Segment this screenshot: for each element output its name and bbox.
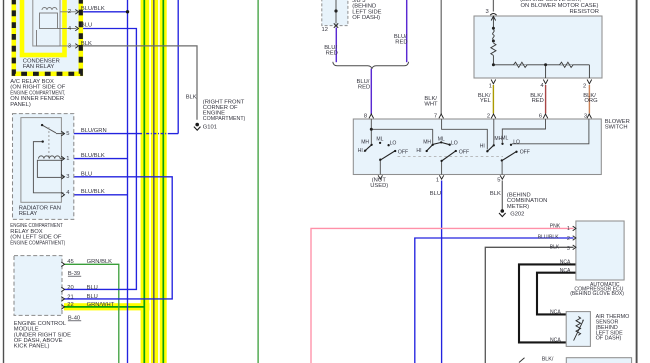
svg-text:SWITCH: SWITCH — [605, 125, 628, 131]
svg-text:ORG: ORG — [584, 98, 598, 104]
svg-text:PNK: PNK — [550, 224, 561, 230]
svg-text:RESISTOR: RESISTOR — [569, 9, 599, 15]
svg-text:RED: RED — [395, 39, 407, 45]
svg-text:1: 1 — [436, 177, 439, 183]
svg-text:YEL: YEL — [480, 98, 492, 104]
svg-text:5: 5 — [66, 131, 69, 137]
svg-text:BLK/: BLK/ — [542, 357, 554, 363]
svg-text:OFF: OFF — [459, 149, 469, 155]
svg-text:BLK: BLK — [81, 41, 92, 47]
svg-text:ML: ML — [438, 136, 445, 142]
svg-text:ENGINE COMPARTMENT): ENGINE COMPARTMENT) — [10, 240, 65, 246]
svg-text:(BEHIND GLOVE BOX): (BEHIND GLOVE BOX) — [570, 291, 624, 297]
svg-text:BLK: BLK — [550, 244, 560, 250]
svg-text:FAN RELAY: FAN RELAY — [23, 64, 55, 70]
svg-text:HI: HI — [416, 148, 421, 154]
svg-text:2: 2 — [567, 236, 570, 242]
svg-text:5: 5 — [497, 177, 500, 183]
svg-text:LO: LO — [451, 140, 458, 146]
svg-text:BLU: BLU — [430, 191, 441, 197]
svg-text:3: 3 — [66, 174, 69, 180]
svg-text:3: 3 — [584, 113, 587, 119]
svg-text:BLK: BLK — [490, 191, 501, 197]
svg-text:GRN/WHT: GRN/WHT — [87, 302, 115, 308]
svg-text:22: 22 — [67, 302, 73, 308]
svg-text:6: 6 — [539, 113, 542, 119]
svg-text:NCA: NCA — [560, 260, 571, 266]
svg-text:RED: RED — [532, 98, 544, 104]
svg-text:BLU: BLU — [81, 23, 92, 29]
svg-text:G202: G202 — [510, 211, 524, 217]
svg-text:MH: MH — [423, 139, 431, 145]
svg-text:OFF: OFF — [398, 149, 408, 155]
svg-text:21: 21 — [67, 294, 73, 300]
svg-text:WHT: WHT — [424, 101, 438, 107]
svg-text:NCA: NCA — [550, 310, 561, 316]
svg-text:USED): USED) — [370, 183, 388, 189]
svg-text:HI: HI — [480, 143, 485, 149]
svg-text:OFF: OFF — [520, 149, 530, 155]
svg-text:BLU: BLU — [81, 171, 92, 177]
svg-text:METER): METER) — [507, 204, 529, 210]
svg-text:7: 7 — [434, 113, 437, 119]
svg-text:1: 1 — [66, 156, 69, 162]
svg-text:1: 1 — [567, 226, 570, 232]
svg-text:3: 3 — [68, 43, 71, 49]
svg-text:RED: RED — [358, 84, 370, 90]
svg-text:3: 3 — [486, 9, 489, 15]
svg-text:HI: HI — [358, 148, 363, 154]
svg-text:ML: ML — [501, 136, 508, 142]
svg-text:BLU/BLK: BLU/BLK — [538, 235, 560, 241]
svg-text:GRN/BLK: GRN/BLK — [87, 259, 113, 265]
svg-text:2: 2 — [583, 84, 586, 90]
svg-text:KICK PANEL): KICK PANEL) — [14, 344, 50, 350]
svg-text:G101: G101 — [203, 124, 217, 130]
svg-text:OF DASH): OF DASH) — [352, 15, 380, 21]
svg-text:RELAY: RELAY — [19, 211, 38, 217]
svg-text:BLU/BLK: BLU/BLK — [81, 189, 105, 195]
svg-text:BLU: BLU — [87, 285, 98, 291]
svg-text:PANEL): PANEL) — [10, 102, 31, 108]
svg-text:COMPARTMENT): COMPARTMENT) — [203, 116, 246, 122]
svg-text:12: 12 — [322, 27, 328, 33]
svg-text:2: 2 — [487, 113, 490, 119]
svg-text:1: 1 — [489, 84, 492, 90]
svg-text:LO: LO — [513, 139, 520, 145]
svg-text:8: 8 — [364, 113, 367, 119]
svg-text:LO: LO — [390, 140, 397, 146]
svg-text:NCA: NCA — [550, 338, 561, 344]
svg-text:3: 3 — [567, 246, 570, 252]
svg-text:BLU/GRN: BLU/GRN — [81, 128, 107, 134]
svg-text:ML: ML — [376, 136, 383, 142]
svg-text:BLU: BLU — [87, 294, 98, 300]
svg-text:MH: MH — [361, 139, 369, 145]
svg-text:2: 2 — [68, 9, 71, 15]
svg-text:BLU/BLK: BLU/BLK — [81, 153, 105, 159]
svg-text:NCA: NCA — [560, 268, 571, 274]
svg-text:BLK: BLK — [186, 95, 197, 101]
svg-text:RED: RED — [326, 50, 338, 56]
svg-text:OF DASH): OF DASH) — [596, 336, 622, 342]
svg-text:45: 45 — [67, 259, 73, 265]
svg-text:BLU/BLK: BLU/BLK — [81, 6, 105, 12]
svg-text:20: 20 — [67, 285, 73, 291]
